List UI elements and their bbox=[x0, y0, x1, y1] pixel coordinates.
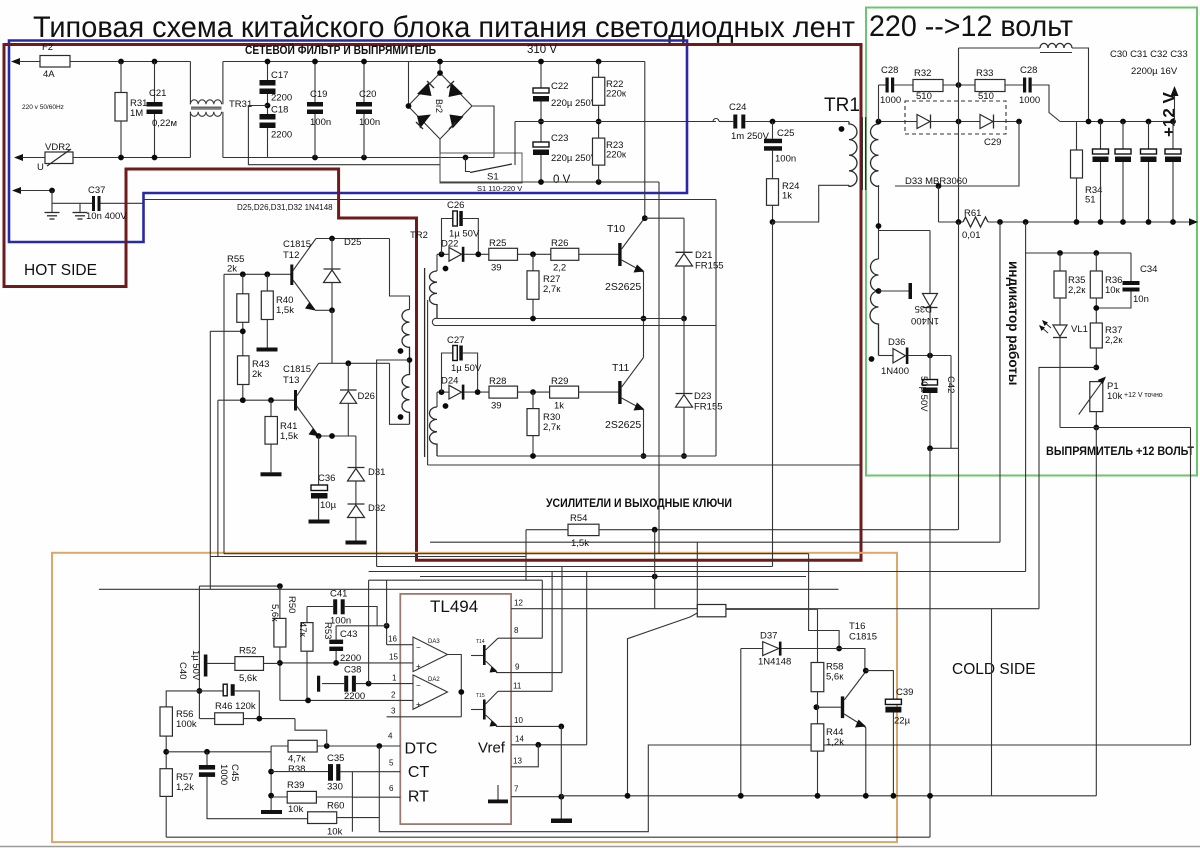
blue box bbox=[9, 41, 687, 243]
wire R46 step to pin4 bbox=[295, 719, 327, 746]
top loop right bbox=[1072, 48, 1089, 122]
TR2 center tap bbox=[377, 360, 410, 567]
svg-text:1000: 1000 bbox=[880, 95, 901, 106]
rail 222 with R61 bbox=[939, 221, 964, 223]
diode D21 bbox=[683, 218, 685, 252]
svg-text:R33: R33 bbox=[976, 68, 993, 79]
resistor R38 4.7k bbox=[271, 745, 288, 747]
resistor R44 bbox=[811, 724, 824, 751]
resistor R31 bbox=[120, 62, 122, 93]
aux tap bar bbox=[879, 290, 909, 292]
bottom rail right bbox=[561, 795, 1096, 797]
resistor R28 bbox=[489, 386, 518, 398]
svg-text:100n: 100n bbox=[310, 117, 331, 128]
T10 emitter drop bbox=[643, 272, 645, 358]
svg-text:R60: R60 bbox=[327, 801, 344, 812]
svg-text:T16: T16 bbox=[849, 621, 865, 632]
resistor R25 bbox=[489, 248, 518, 260]
diode D37 bbox=[741, 648, 763, 650]
ground R41 bbox=[261, 472, 282, 476]
wire bottom rail bbox=[73, 157, 190, 159]
ground D32 bbox=[346, 541, 367, 545]
node T13 emitter bbox=[319, 435, 356, 437]
transistor T14 bbox=[483, 645, 486, 665]
ground C36 bbox=[309, 520, 330, 524]
TR2 sec upper bbox=[436, 254, 438, 271]
svg-text:10n 400V: 10n 400V bbox=[86, 211, 127, 222]
svg-text:C19: C19 bbox=[310, 89, 327, 100]
maroon box bbox=[4, 45, 861, 561]
svg-text:R50: R50 bbox=[286, 596, 297, 613]
+12 rail bbox=[1060, 121, 1175, 123]
resistor R43 bbox=[238, 356, 250, 385]
svg-text:T11: T11 bbox=[612, 362, 629, 374]
indicator top node bbox=[1026, 252, 1131, 254]
capacitor C43 bbox=[336, 625, 388, 627]
svg-text:R38: R38 bbox=[288, 764, 305, 775]
svg-text:C18: C18 bbox=[271, 105, 288, 116]
svg-text:39: 39 bbox=[491, 263, 502, 274]
svg-text:10k: 10k bbox=[1107, 391, 1123, 402]
rail T12 collector bbox=[316, 238, 390, 240]
capacitor C35 bbox=[271, 771, 328, 773]
svg-text:6: 6 bbox=[389, 784, 394, 793]
resistor R46 bbox=[199, 718, 214, 720]
bottom border bbox=[0, 846, 1200, 848]
svg-text:5: 5 bbox=[389, 759, 394, 768]
svg-text:C41: C41 bbox=[330, 589, 347, 600]
right edge loop bbox=[1190, 428, 1192, 746]
svg-text:C34: C34 bbox=[1140, 264, 1157, 275]
svg-text:C26: C26 bbox=[447, 200, 464, 211]
wire diag from R59 bbox=[628, 613, 698, 796]
rail T13 collector bbox=[319, 362, 390, 364]
capacitor C42 bbox=[929, 356, 931, 380]
svg-text:T12: T12 bbox=[283, 250, 299, 261]
transistor T10 bbox=[618, 243, 621, 266]
bundle y589 bbox=[99, 588, 839, 590]
diode D32 bbox=[355, 481, 357, 504]
svg-text:T15: T15 bbox=[476, 693, 485, 699]
bridge Br2 bbox=[408, 73, 472, 139]
T11 emitter drop bbox=[643, 410, 645, 456]
svg-text:10: 10 bbox=[514, 716, 523, 725]
node C21 top bbox=[152, 59, 158, 65]
svg-text:16: 16 bbox=[388, 635, 397, 644]
svg-text:10k: 10k bbox=[327, 827, 343, 838]
junction wire bbox=[166, 751, 271, 753]
svg-text:R26: R26 bbox=[551, 238, 568, 249]
svg-text:D25,D26,D31,D32 1N4148: D25,D26,D31,D32 1N4148 bbox=[237, 203, 333, 212]
pin8 up bbox=[541, 580, 543, 638]
svg-text:2,2к: 2,2к bbox=[1105, 335, 1123, 346]
svg-text:Vref: Vref bbox=[478, 740, 506, 757]
svg-text:220к: 220к bbox=[606, 150, 627, 161]
wire D33 to rail bbox=[938, 186, 940, 222]
pin14 up bbox=[586, 572, 588, 745]
svg-text:FR155: FR155 bbox=[695, 261, 724, 272]
output choke bbox=[1040, 43, 1072, 48]
svg-text:ВЫПРЯМИТЕЛЬ +12 ВОЛЬТ: ВЫПРЯМИТЕЛЬ +12 ВОЛЬТ bbox=[1046, 446, 1194, 458]
resistor R34 bbox=[1076, 122, 1078, 151]
wire R54 left drop bbox=[525, 530, 527, 581]
svg-text:HOT SIDE: HOT SIDE bbox=[24, 262, 97, 279]
pin9 up bbox=[561, 567, 563, 673]
node R31 top bbox=[118, 59, 124, 65]
svg-text:индикатор работы: индикатор работы bbox=[1006, 261, 1021, 385]
left bus x199 bbox=[198, 586, 200, 719]
diode D26 bbox=[347, 363, 349, 390]
svg-text:220µ 250V: 220µ 250V bbox=[551, 98, 598, 109]
opamp outputs bbox=[448, 655, 462, 717]
svg-text:DA3: DA3 bbox=[428, 639, 440, 645]
emitter rail lower bbox=[437, 455, 716, 457]
svg-text:D36: D36 bbox=[888, 337, 905, 348]
diode D25 bbox=[331, 239, 333, 270]
capacitor C23 bbox=[533, 142, 549, 147]
capacitor C17 bbox=[267, 62, 269, 81]
svg-text:COLD SIDE: COLD SIDE bbox=[952, 661, 1036, 678]
svg-text:1M: 1M bbox=[130, 108, 143, 119]
transistor T11 bbox=[618, 381, 621, 404]
pin7 bbox=[511, 796, 561, 798]
svg-text:100n: 100n bbox=[359, 117, 380, 128]
R38 bus bbox=[270, 746, 272, 810]
bundle y586 top rail TL bbox=[199, 585, 280, 587]
resistor R50 bbox=[279, 586, 281, 618]
svg-text:51: 51 bbox=[1085, 195, 1096, 206]
svg-text:R32: R32 bbox=[914, 68, 931, 79]
right box vertical bbox=[991, 609, 993, 796]
capacitor C25 bbox=[772, 122, 774, 139]
svg-text:2,2: 2,2 bbox=[553, 263, 566, 274]
svg-text:R25: R25 bbox=[489, 238, 506, 249]
resistor R58 bbox=[817, 609, 819, 662]
TR1 core bbox=[861, 117, 863, 190]
svg-text:T14: T14 bbox=[476, 639, 485, 645]
pin10 down ground bbox=[560, 726, 562, 818]
diode D23 bbox=[683, 319, 685, 394]
TR1 secondary coil bbox=[871, 122, 879, 187]
capacitor C28 right bbox=[1023, 78, 1026, 93]
svg-text:2200: 2200 bbox=[271, 93, 292, 104]
TR2 primary bottom feed bbox=[390, 363, 410, 424]
capacitor C27 bbox=[442, 353, 453, 392]
collector drop x644 bbox=[644, 62, 646, 219]
svg-text:10k: 10k bbox=[288, 804, 304, 815]
svg-text:2200µ 16V: 2200µ 16V bbox=[1131, 66, 1178, 77]
svg-text:Типовая схема китайского блока: Типовая схема китайского блока питания с… bbox=[33, 11, 855, 44]
svg-text:0,01: 0,01 bbox=[962, 230, 981, 241]
pin4 loop bbox=[379, 745, 1190, 832]
resistor R23 bbox=[593, 138, 605, 165]
capacitor C20 bbox=[363, 62, 365, 103]
svg-text:13: 13 bbox=[513, 757, 522, 766]
resistor R35 bbox=[1059, 253, 1061, 271]
diode D24 bbox=[449, 385, 462, 399]
capacitor C22 bbox=[540, 62, 542, 89]
svg-text:C43: C43 bbox=[340, 629, 357, 640]
wire long y199 bbox=[144, 199, 717, 201]
svg-text:+12 V: +12 V bbox=[1160, 91, 1179, 137]
svg-text:VL1: VL1 bbox=[1071, 324, 1088, 335]
svg-text:U: U bbox=[37, 162, 44, 173]
svg-text:C25: C25 bbox=[777, 128, 794, 139]
svg-text:C20: C20 bbox=[359, 89, 376, 100]
ground R40 bbox=[257, 348, 278, 352]
pin12 bbox=[511, 608, 1039, 610]
capacitor C24 bbox=[733, 115, 737, 129]
svg-text:C23: C23 bbox=[551, 133, 568, 144]
svg-text:УСИЛИТЕЛИ И ВЫХОДНЫЕ КЛЮЧИ: УСИЛИТЕЛИ И ВЫХОДНЫЕ КЛЮЧИ bbox=[546, 498, 732, 510]
svg-text:T13: T13 bbox=[283, 375, 299, 386]
T14 emitter pin9 bbox=[496, 671, 562, 673]
svg-text:0,22м: 0,22м bbox=[152, 118, 177, 129]
svg-text:10n: 10n bbox=[1133, 294, 1149, 305]
bundle y553 bbox=[224, 553, 809, 555]
TR2 sec lower bbox=[436, 392, 438, 407]
aux phase dot bbox=[869, 356, 875, 362]
transistor T16 bbox=[841, 696, 844, 718]
long drop x1025 bbox=[1025, 222, 1027, 572]
svg-text:R28: R28 bbox=[489, 376, 506, 387]
svg-text:220 -->12 вольт: 220 -->12 вольт bbox=[869, 10, 1073, 43]
resistor R36 bbox=[1095, 253, 1097, 271]
pin16 wire bbox=[386, 626, 388, 645]
svg-text:D25: D25 bbox=[344, 237, 361, 248]
svg-text:−: − bbox=[416, 643, 421, 652]
capacitor C34 bbox=[1130, 253, 1132, 281]
svg-text:7: 7 bbox=[514, 785, 519, 794]
resistor R52 bbox=[235, 657, 264, 671]
svg-text:1000: 1000 bbox=[1019, 95, 1040, 106]
resistor R57 bbox=[160, 769, 172, 797]
svg-text:D24: D24 bbox=[441, 376, 458, 387]
svg-text:2S2625: 2S2625 bbox=[605, 419, 641, 431]
svg-text:2,2к: 2,2к bbox=[1068, 285, 1086, 296]
svg-text:C35: C35 bbox=[327, 753, 344, 764]
svg-text:9: 9 bbox=[515, 663, 520, 672]
arrow mains bottom bbox=[14, 154, 23, 161]
capacitor C45 bbox=[206, 752, 208, 765]
bundle y571 bbox=[369, 571, 1026, 573]
svg-text:C38: C38 bbox=[344, 665, 361, 676]
svg-text:2200: 2200 bbox=[271, 130, 292, 141]
capacitor C19 bbox=[314, 62, 316, 103]
feedback wire R37 P1 bbox=[1039, 367, 1096, 608]
aux winding bbox=[870, 259, 879, 356]
varistor VDR2 bbox=[45, 152, 73, 164]
transistor T15 bbox=[483, 700, 486, 720]
resistor R41 bbox=[270, 400, 272, 416]
svg-text:2200: 2200 bbox=[344, 691, 365, 702]
node C25 top bbox=[770, 119, 776, 125]
svg-text:15: 15 bbox=[389, 653, 398, 662]
T15 collector pin11 bbox=[498, 690, 552, 692]
wire shield y465 bbox=[428, 464, 861, 466]
pin6 bbox=[352, 796, 400, 798]
svg-text:DA2: DA2 bbox=[428, 677, 440, 683]
svg-text:1,5k: 1,5k bbox=[280, 431, 298, 442]
svg-text:220 v 50/60Hz: 220 v 50/60Hz bbox=[22, 104, 64, 111]
TL494 box bbox=[400, 594, 511, 824]
svg-text:CT: CT bbox=[408, 764, 430, 781]
resistor R60 bbox=[308, 812, 337, 824]
svg-text:R52: R52 bbox=[239, 646, 256, 657]
resistor R59 unlabeled bbox=[697, 605, 726, 617]
svg-text:C36: C36 bbox=[318, 473, 335, 484]
wire top rail bbox=[19, 61, 40, 63]
svg-text:F2: F2 bbox=[42, 42, 53, 53]
node R32 R33 bbox=[956, 82, 962, 88]
svg-text:510: 510 bbox=[916, 91, 932, 102]
T14 collector pin8 bbox=[498, 637, 542, 639]
drop x654 bbox=[654, 530, 656, 609]
capacitor C36 bbox=[318, 436, 320, 485]
transistor T12 bbox=[290, 265, 293, 286]
wire doubler mid bbox=[515, 121, 716, 123]
capacitor C30 bbox=[1100, 122, 1102, 150]
bridge left feed bbox=[408, 62, 410, 107]
svg-text:220к: 220к bbox=[606, 89, 627, 100]
svg-text:C40: C40 bbox=[177, 662, 188, 679]
resistor R55 bbox=[242, 274, 244, 294]
svg-text:S1: S1 bbox=[487, 172, 499, 183]
svg-text:3: 3 bbox=[391, 707, 396, 716]
diode D33b bbox=[980, 115, 993, 129]
svg-text:5,6к: 5,6к bbox=[269, 604, 280, 622]
node T12 emitter bbox=[315, 309, 332, 311]
wire R54 line bbox=[526, 529, 568, 531]
diode D33a bbox=[917, 115, 930, 129]
wire pin12 jog bbox=[809, 554, 840, 649]
svg-text:5,6k: 5,6k bbox=[239, 673, 257, 684]
wire base rail T12 bbox=[224, 273, 292, 275]
svg-text:100n: 100n bbox=[775, 154, 796, 165]
bundle y566 bbox=[377, 566, 773, 568]
capacitor C32 bbox=[1148, 122, 1150, 150]
top loop left bbox=[959, 47, 1041, 49]
svg-text:14: 14 bbox=[515, 735, 524, 744]
pot P1 bbox=[1090, 382, 1103, 412]
wire top rail after choke bbox=[223, 61, 645, 63]
T15 emitter pin10 bbox=[496, 725, 561, 726]
svg-text:FR155: FR155 bbox=[694, 402, 723, 413]
choke TR31 bbox=[189, 62, 191, 105]
svg-text:330: 330 bbox=[327, 782, 343, 793]
opamp DA3 bbox=[413, 637, 448, 672]
svg-text:1m 250V: 1m 250V bbox=[731, 131, 770, 142]
capacitor C33 bbox=[1172, 122, 1174, 150]
svg-text:СЕТЕВОЙ ФИЛЬТР И ВЫПРЯМИТЕЛЬ: СЕТЕВОЙ ФИЛЬТР И ВЫПРЯМИТЕЛЬ bbox=[245, 44, 436, 57]
svg-text:C27: C27 bbox=[447, 335, 464, 346]
capacitor C40 bbox=[204, 655, 208, 677]
svg-text:22µ: 22µ bbox=[894, 716, 911, 727]
ground inside box bbox=[497, 785, 499, 800]
resistor R54 bbox=[568, 524, 599, 535]
aux top wire bbox=[879, 230, 931, 232]
svg-text:Br2: Br2 bbox=[434, 99, 444, 113]
dashed box D33 bbox=[905, 101, 1006, 134]
svg-text:1µ 50V: 1µ 50V bbox=[190, 650, 201, 681]
capacitor C41 bbox=[307, 606, 333, 608]
opamp DA2 bbox=[413, 675, 448, 709]
svg-text:510: 510 bbox=[978, 91, 994, 102]
pin5 bbox=[340, 771, 400, 773]
TR2 primary coil bbox=[402, 310, 410, 361]
TR1 primary coil bbox=[849, 122, 857, 187]
svg-text:1,2k: 1,2k bbox=[826, 737, 844, 748]
svg-text:DTC: DTC bbox=[405, 741, 438, 758]
C42 bypass loop bbox=[950, 356, 952, 449]
bridge right to rail bbox=[472, 106, 494, 158]
svg-text:1,2k: 1,2k bbox=[176, 782, 194, 793]
resistor R29 bbox=[550, 386, 579, 398]
TR1 sec bottom drop bbox=[878, 185, 880, 230]
svg-text:4: 4 bbox=[388, 732, 393, 741]
svg-text:100n: 100n bbox=[330, 616, 351, 627]
drop x1096 bbox=[1095, 428, 1097, 796]
resistor R24 bbox=[767, 179, 779, 206]
capacitor C18 bbox=[260, 114, 276, 120]
resistor R33 bbox=[975, 80, 1005, 92]
wire top rail main bbox=[70, 61, 190, 63]
pin11 up bbox=[551, 572, 553, 692]
+12 arrow bbox=[1174, 94, 1176, 122]
resistor R37 bbox=[1090, 323, 1102, 348]
svg-text:C30 C31 C32 C33: C30 C31 C32 C33 bbox=[1110, 49, 1188, 60]
svg-text:1µ 50V: 1µ 50V bbox=[451, 363, 482, 374]
x697 decor vertical bbox=[696, 542, 698, 609]
D35 cathode to D36 bbox=[929, 308, 931, 356]
svg-text:R46 120k: R46 120k bbox=[215, 701, 256, 712]
C42 bottom drop bbox=[929, 448, 931, 837]
svg-text:+: + bbox=[416, 700, 421, 709]
bundle y542 bbox=[430, 541, 1000, 543]
svg-text:C1815: C1815 bbox=[283, 364, 311, 375]
capacitor C21 bbox=[154, 62, 156, 103]
svg-text:2S2625: 2S2625 bbox=[605, 281, 641, 293]
capacitor C38 bbox=[317, 676, 320, 692]
svg-text:R54: R54 bbox=[570, 513, 587, 524]
svg-text:10к: 10к bbox=[1105, 285, 1121, 296]
resistor R40 bbox=[266, 274, 268, 291]
wire 0V rail bbox=[440, 181, 659, 183]
capacitor C44 bbox=[199, 690, 223, 692]
resistor R32 bbox=[913, 80, 943, 92]
svg-text:RT: RT bbox=[408, 789, 429, 806]
pin stubs left bbox=[387, 644, 413, 646]
svg-text:47к: 47к bbox=[297, 622, 308, 638]
svg-text:C29: C29 bbox=[984, 137, 1001, 148]
bundle y556 bbox=[210, 556, 526, 558]
green box bbox=[866, 8, 1197, 476]
bridge bottom to 0V bbox=[439, 139, 441, 182]
ground 1 bbox=[51, 191, 53, 213]
svg-text:12: 12 bbox=[514, 599, 523, 608]
svg-text:C28: C28 bbox=[881, 65, 898, 76]
svg-text:5,6к: 5,6к bbox=[826, 672, 844, 683]
svg-text:TR2: TR2 bbox=[410, 230, 428, 241]
svg-text:+: + bbox=[416, 662, 421, 671]
capacitor C31 bbox=[1122, 122, 1124, 150]
svg-text:1k: 1k bbox=[554, 401, 564, 412]
bundle y576 bbox=[420, 576, 806, 578]
T10 collector node bbox=[642, 215, 648, 221]
svg-text:11: 11 bbox=[513, 682, 522, 691]
long drop x1000 bbox=[999, 222, 1001, 542]
wire R24 drop long bbox=[772, 222, 774, 567]
